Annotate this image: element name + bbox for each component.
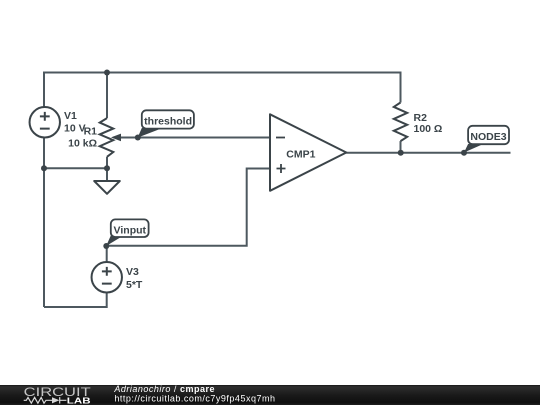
wire left rail V1 bottom down [43,137,45,307]
label V3 value [126,266,143,291]
label R2 value [414,112,443,135]
flag Vinput [103,219,148,249]
svg-text:R1: R1 [84,125,98,137]
svg-text:CMP1: CMP1 [286,149,315,161]
svg-text:5*T: 5*T [126,279,143,291]
wire R2 bottom lead [400,141,402,153]
svg-text:threshold: threshold [144,115,192,127]
wire R1 bottom lead [106,157,108,169]
svg-text:NODE3: NODE3 [470,131,506,143]
label R1 value [68,125,97,149]
potentiometer R1 [100,118,121,157]
junction R1 bottom / ground [104,165,110,171]
flag NODE3 [461,126,509,156]
flag threshold [135,110,194,140]
wire op-amp plus input to Vinput net to V3 top [107,169,270,263]
svg-text:10 V: 10 V [64,122,86,134]
CircuitLab logo resistor-diode glyph [24,397,67,403]
wire V1 bottom to R1 bottom [44,167,107,169]
voltage source V3 [92,262,122,292]
wire output net CMP1 to NODE3 [346,152,510,154]
svg-text:V1: V1 [64,110,77,122]
wire ground stem [106,168,108,181]
resistor R2 [394,103,407,142]
op-amp CMP1 [270,114,346,191]
ground [94,181,120,194]
junction top of R1 [104,70,110,76]
svg-text:http://circuitlab.com/c7y9fp45: http://circuitlab.com/c7y9fp45xq7mh [114,394,275,404]
wire top rail V1 to R1 to R2 [44,73,401,108]
junction V1 bottom [41,165,47,171]
wire bottom left to V3 bottom [44,292,107,307]
svg-text:V3: V3 [126,266,139,278]
svg-text:Vinput: Vinput [114,224,147,236]
svg-text:10 kΩ: 10 kΩ [68,138,97,150]
wire R1 top lead [106,73,108,119]
svg-text:LAB: LAB [67,396,91,405]
label V1 value [64,110,86,134]
svg-text:Adrianochiro / cmpare: Adrianochiro / cmpare [113,384,215,394]
voltage source V1 [30,107,60,137]
junction R2 at output [398,150,404,156]
wire threshold net wiper to op-amp minus input [113,137,270,139]
svg-text:100 Ω: 100 Ω [414,123,443,135]
